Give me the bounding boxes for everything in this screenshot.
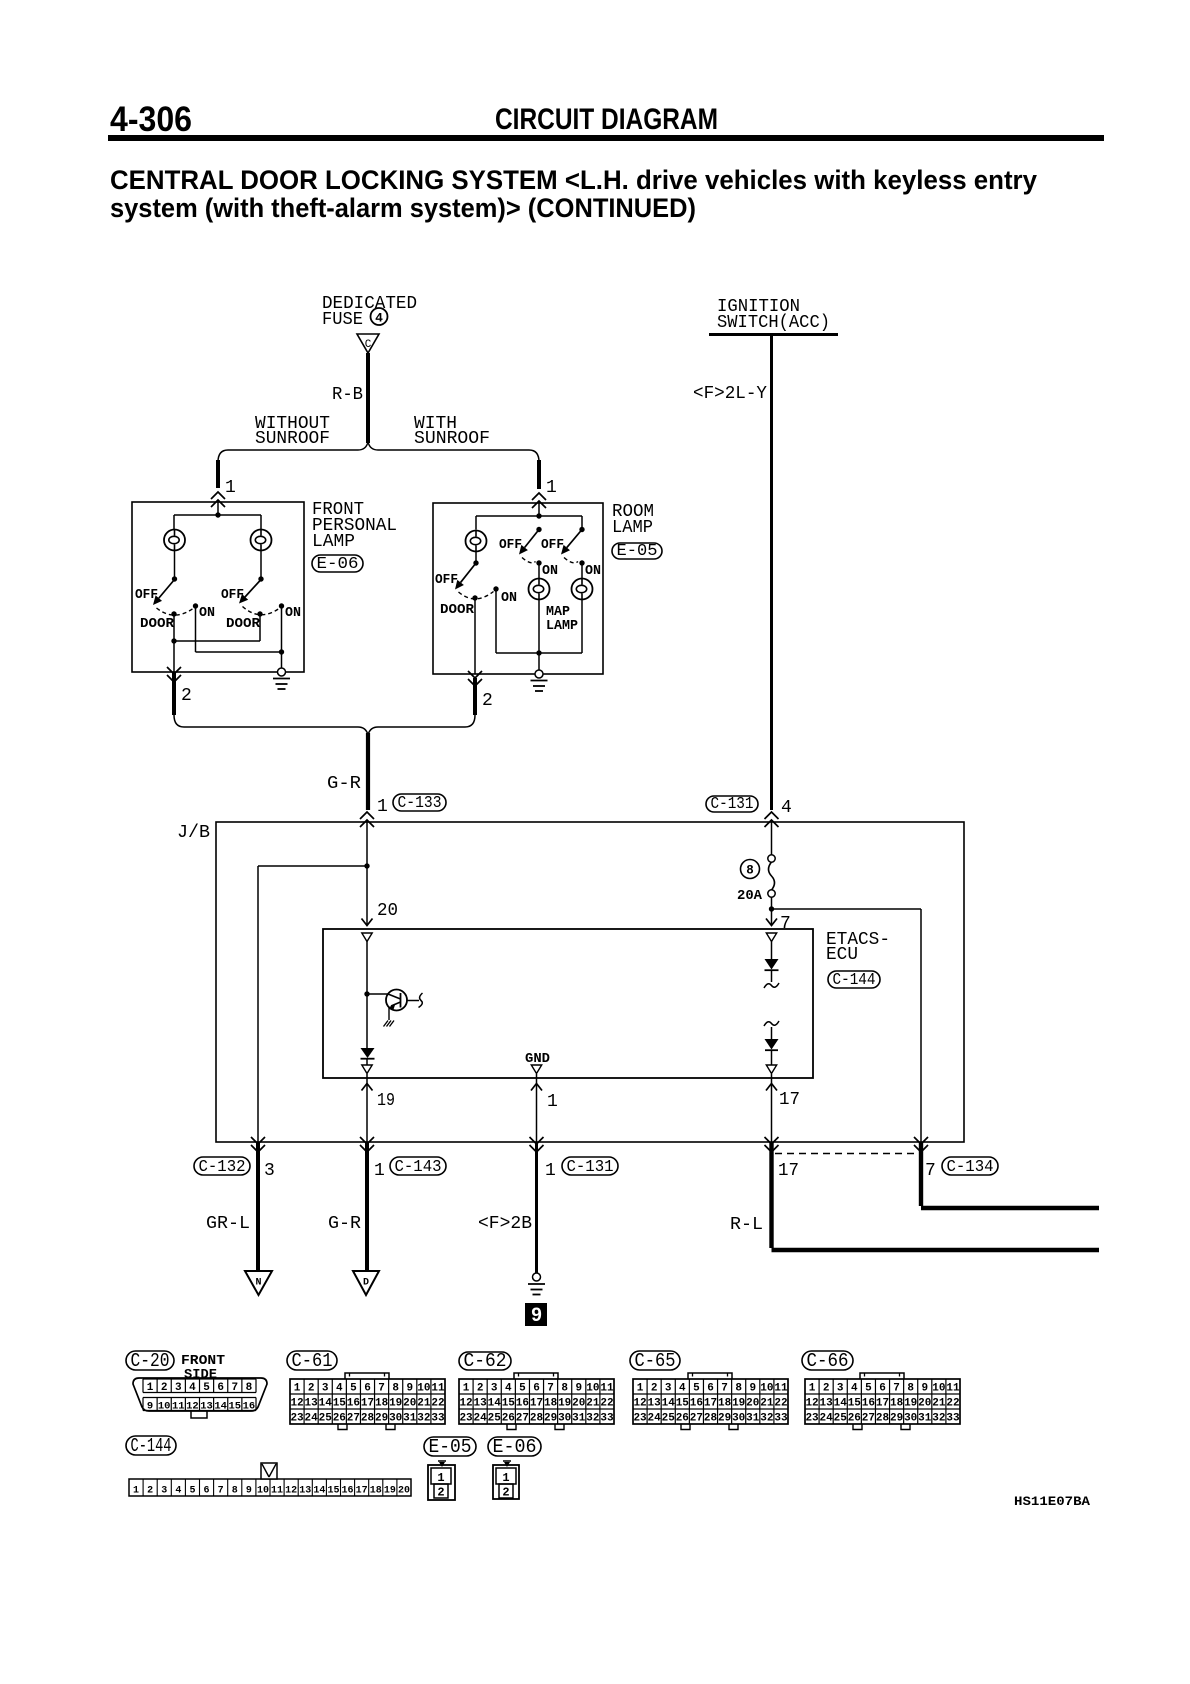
svg-text:20A: 20A [737,889,763,904]
svg-text:7: 7 [780,914,791,934]
svg-text:16: 16 [347,1398,360,1410]
svg-text:R-B: R-B [332,385,363,405]
svg-text:20: 20 [403,1398,416,1410]
svg-text:5: 5 [693,1383,700,1395]
svg-text:15: 15 [327,1486,339,1497]
svg-text:DOOR: DOOR [440,603,475,618]
svg-text:5: 5 [189,1486,195,1497]
svg-text:7: 7 [218,1486,224,1497]
svg-text:1: 1 [809,1383,816,1395]
svg-text:1: 1 [294,1383,301,1395]
svg-text:14: 14 [214,1401,227,1413]
svg-text:31: 31 [572,1413,586,1425]
on bus room [495,589,497,653]
split brace [218,442,539,462]
svg-text:9: 9 [531,1305,542,1326]
svg-text:23: 23 [805,1413,819,1425]
exit C-134 pin 7 [914,1145,928,1152]
terminal D triangle [353,1271,379,1295]
svg-text:27: 27 [347,1413,360,1425]
svg-text:13: 13 [299,1486,311,1497]
svg-text:21: 21 [932,1398,946,1410]
interior wiring [217,502,219,515]
svg-text:2: 2 [502,1486,509,1500]
wire pin 19 [366,1074,368,1142]
svg-text:30: 30 [732,1413,745,1425]
svg-text:8: 8 [907,1383,914,1395]
svg-text:25: 25 [662,1413,676,1425]
svg-text:5: 5 [350,1383,357,1395]
svg-text:1: 1 [546,478,557,498]
svg-text:C-144: C-144 [131,1435,172,1457]
svg-text:4: 4 [851,1383,858,1395]
svg-text:12: 12 [805,1398,818,1410]
svg-text:11: 11 [774,1383,788,1395]
svg-text:13: 13 [648,1398,662,1410]
svg-text:7: 7 [547,1383,554,1395]
svg-text:8: 8 [232,1486,238,1497]
svg-text:27: 27 [516,1413,529,1425]
svg-text:17: 17 [778,1161,799,1181]
svg-text:23: 23 [290,1413,304,1425]
svg-text:R-L: R-L [730,1215,763,1235]
svg-text:N: N [255,1278,261,1289]
svg-text:16: 16 [690,1398,703,1410]
svg-text:GR-L: GR-L [206,1214,250,1234]
svg-text:24: 24 [820,1413,834,1425]
connector C-65 [630,1351,680,1370]
lamp right [581,563,583,579]
svg-text:2: 2 [823,1383,830,1395]
svg-text:13: 13 [305,1398,319,1410]
diode D3 [764,1021,779,1026]
switch 3 arc [459,592,494,599]
wire G-R [366,733,370,810]
svg-text:30: 30 [558,1413,571,1425]
svg-text:9: 9 [921,1383,928,1395]
svg-text:17: 17 [361,1398,374,1410]
svg-text:2: 2 [437,1486,444,1500]
arrow 20 into ETACS [366,866,368,925]
svg-text:2: 2 [181,686,192,706]
switch 5 [581,516,583,530]
svg-text:12: 12 [285,1486,297,1497]
svg-text:2: 2 [651,1383,658,1395]
svg-text:9: 9 [406,1383,413,1395]
connector label E-06 [312,555,363,572]
svg-text:11: 11 [600,1383,614,1395]
svg-text:28: 28 [876,1413,890,1425]
svg-text:C-144: C-144 [833,971,876,990]
lamp room left [466,531,487,552]
room lamp box [433,503,603,674]
svg-text:29: 29 [890,1413,903,1425]
svg-text:2: 2 [308,1383,315,1395]
svg-text:19: 19 [904,1398,917,1410]
svg-text:ON: ON [585,564,601,579]
connector label C-144 [828,971,880,988]
svg-text:23: 23 [633,1413,647,1425]
svg-text:17: 17 [876,1398,889,1410]
wire R-B [366,353,370,443]
exit C-143 pin 1 [360,1145,374,1152]
svg-text:25: 25 [834,1413,848,1425]
connector C-131 top [706,796,758,812]
svg-text:23: 23 [459,1413,473,1425]
svg-text:8: 8 [746,864,754,878]
switch 4 (map) [536,527,541,532]
svg-text:ON: ON [199,606,215,621]
svg-text:19: 19 [732,1398,745,1410]
ground symbol bottom [533,1273,541,1281]
svg-text:21: 21 [586,1398,600,1410]
svg-text:ECU: ECU [826,945,858,965]
dashed link [775,1153,918,1155]
svg-text:14: 14 [662,1398,676,1410]
svg-text:26: 26 [676,1413,689,1425]
svg-text:29: 29 [375,1413,388,1425]
svg-text:9: 9 [749,1383,756,1395]
svg-text:C-62: C-62 [464,1350,507,1372]
svg-text:3: 3 [175,1382,182,1394]
fuse number circle 8 [741,860,760,879]
svg-text:C-134: C-134 [947,1158,994,1177]
svg-text:C-132: C-132 [199,1158,246,1177]
svg-text:10: 10 [257,1486,269,1497]
svg-text:2: 2 [161,1382,168,1394]
svg-text:2: 2 [477,1383,484,1395]
svg-text:11: 11 [946,1383,960,1395]
svg-text:13: 13 [820,1398,834,1410]
svg-text:6: 6 [879,1383,886,1395]
svg-text:FRONT: FRONT [181,1354,225,1369]
svg-text:32: 32 [417,1413,430,1425]
svg-text:9: 9 [246,1486,252,1497]
connector E-05 [424,1437,476,1456]
ground room [538,653,540,670]
svg-text:7: 7 [378,1383,385,1395]
svg-text:2: 2 [482,691,493,711]
svg-text:19: 19 [558,1398,571,1410]
svg-text:E-06: E-06 [317,555,359,574]
svg-text:29: 29 [718,1413,731,1425]
svg-text:4-306: 4-306 [110,100,192,139]
map lamp [538,563,540,579]
connector label E-05 [612,543,662,559]
svg-text:16: 16 [243,1401,256,1413]
merge brace [174,715,475,735]
svg-text:11: 11 [431,1383,445,1395]
svg-text:OFF: OFF [499,538,522,553]
svg-text:28: 28 [530,1413,544,1425]
svg-text:19: 19 [389,1398,402,1410]
svg-text:ON: ON [285,606,301,621]
lamp left [164,530,185,551]
svg-text:C-131: C-131 [711,795,754,814]
svg-text:33: 33 [774,1413,788,1425]
svg-text:D: D [363,1278,369,1289]
switch 2 arc [243,607,280,615]
svg-text:25: 25 [488,1413,502,1425]
transistor Q1 [367,993,390,995]
svg-text:4: 4 [505,1383,512,1395]
svg-text:32: 32 [760,1413,773,1425]
svg-text:25: 25 [319,1413,333,1425]
connector C-66 [802,1351,853,1370]
svg-text:14: 14 [488,1398,502,1410]
left interior wire [366,942,368,1049]
svg-text:33: 33 [431,1413,445,1425]
svg-text:SUNROOF: SUNROOF [255,429,330,449]
svg-text:G-R: G-R [327,774,361,794]
branch to C-134 [772,908,922,910]
svg-text:LAMP: LAMP [612,518,653,538]
svg-text:12: 12 [633,1398,646,1410]
svg-text:OFF: OFF [221,588,244,603]
svg-text:3: 3 [491,1383,498,1395]
branch to C-132 [258,865,367,867]
svg-text:SWITCH(ACC): SWITCH(ACC) [717,313,830,333]
exit wire pin 2 [173,641,175,672]
svg-text:LAMP: LAMP [546,619,578,634]
svg-text:MAP: MAP [546,605,570,620]
svg-text:31: 31 [746,1413,760,1425]
pin 19 triangle [362,1065,372,1074]
svg-text:24: 24 [474,1413,488,1425]
svg-text:24: 24 [305,1413,319,1425]
door bus [173,614,175,641]
svg-text:4: 4 [189,1382,196,1394]
svg-text:DOOR: DOOR [140,617,175,632]
ground ref 9 [525,1303,547,1326]
junction block J/B [216,822,964,1142]
exit wire pin 2 room [474,598,476,674]
svg-text:1: 1 [147,1382,154,1394]
front personal lamp box [132,502,304,672]
svg-text:SUNROOF: SUNROOF [414,429,490,449]
svg-text:E-06: E-06 [493,1436,537,1458]
svg-text:32: 32 [586,1413,599,1425]
C-144 notch [261,1463,277,1479]
svg-text:21: 21 [417,1398,431,1410]
svg-text:7: 7 [721,1383,728,1395]
header rule [108,135,1104,141]
svg-text:2: 2 [147,1486,153,1497]
svg-text:5: 5 [519,1383,526,1395]
wire GND 1 [536,1074,538,1142]
svg-text:20: 20 [398,1486,410,1497]
svg-text:C-61: C-61 [292,1350,333,1372]
connector C-133 [360,812,374,819]
exit C-131 pin 1 [530,1145,544,1152]
arrow 7 into ETACS [771,909,773,925]
svg-text:<F>2L-Y: <F>2L-Y [693,384,767,404]
svg-text:3: 3 [837,1383,844,1395]
ETACS-ECU box [323,929,813,1078]
svg-text:22: 22 [946,1398,959,1410]
svg-text:16: 16 [516,1398,529,1410]
svg-text:26: 26 [502,1413,515,1425]
svg-text:15: 15 [229,1401,242,1413]
svg-text:4: 4 [336,1383,343,1395]
svg-text:10: 10 [417,1383,430,1395]
svg-text:22: 22 [600,1398,613,1410]
svg-text:14: 14 [313,1486,325,1497]
svg-text:1: 1 [377,797,388,817]
svg-text:17: 17 [356,1486,368,1497]
lamp right [251,530,272,551]
svg-text:18: 18 [370,1486,382,1497]
switch 1 blade [159,580,175,599]
svg-text:3: 3 [665,1383,672,1395]
svg-text:C: C [365,339,372,351]
svg-text:1: 1 [437,1471,444,1485]
svg-text:1: 1 [374,1161,385,1181]
svg-text:12: 12 [290,1398,303,1410]
svg-text:17: 17 [704,1398,717,1410]
svg-text:SIDE: SIDE [184,1368,217,1383]
svg-text:27: 27 [690,1413,703,1425]
svg-text:12: 12 [186,1401,199,1413]
svg-text:26: 26 [333,1413,346,1425]
switch 2 blade [245,580,261,597]
wire to room lamp [537,460,541,489]
svg-text:29: 29 [544,1413,557,1425]
svg-text:10: 10 [158,1401,171,1413]
diode D1 [361,1048,375,1058]
connector C-144 [126,1436,176,1455]
switch 1 arc [157,608,194,615]
svg-text:16: 16 [862,1398,875,1410]
svg-text:3: 3 [161,1486,167,1497]
svg-text:OFF: OFF [541,538,564,553]
svg-text:G-R: G-R [328,1214,361,1234]
svg-text:1: 1 [225,478,236,498]
svg-text:6: 6 [364,1383,371,1395]
svg-text:21: 21 [760,1398,774,1410]
pin 20 triangle [362,933,372,942]
connector C-20 [126,1351,174,1370]
svg-text:9: 9 [575,1383,582,1395]
right interior: diode D2 [766,933,776,942]
svg-text:20: 20 [377,901,398,921]
svg-text:1: 1 [547,1092,558,1112]
svg-text:10: 10 [760,1383,773,1395]
svg-text:31: 31 [403,1413,417,1425]
node below fuse [771,897,773,909]
svg-text:5: 5 [865,1383,872,1395]
svg-text:3: 3 [264,1161,275,1181]
svg-text:13: 13 [474,1398,488,1410]
svg-text:15: 15 [848,1398,862,1410]
svg-text:11: 11 [172,1401,185,1413]
svg-text:8: 8 [246,1382,253,1394]
svg-text:6: 6 [204,1486,210,1497]
svg-text:8: 8 [561,1383,568,1395]
svg-text:12: 12 [459,1398,472,1410]
connector C-62 [459,1352,511,1370]
svg-text:HS11E07BA: HS11E07BA [1014,1494,1090,1509]
svg-text:18: 18 [544,1398,558,1410]
svg-text:C-133: C-133 [398,794,442,813]
svg-text:C-131: C-131 [567,1158,614,1177]
svg-text:CENTRAL DOOR LOCKING SYSTEM <L: CENTRAL DOOR LOCKING SYSTEM <L.H. drive … [110,165,1037,195]
svg-text:LAMP: LAMP [312,532,355,552]
svg-text:17: 17 [779,1090,800,1110]
svg-text:C-66: C-66 [807,1350,849,1372]
svg-text:6: 6 [217,1382,224,1394]
svg-text:C-20: C-20 [131,1350,170,1372]
svg-text:20: 20 [746,1398,759,1410]
fuse 20A [771,822,773,855]
wire pin 17 [771,1074,773,1142]
svg-text:<F>2B: <F>2B [478,1214,532,1234]
terminal N triangle [245,1271,272,1295]
svg-text:FUSE: FUSE [322,310,363,330]
svg-text:7: 7 [232,1382,239,1394]
svg-text:19: 19 [377,1091,395,1111]
svg-text:30: 30 [389,1413,402,1425]
svg-text:32: 32 [932,1413,945,1425]
svg-text:28: 28 [704,1413,718,1425]
svg-text:3: 3 [322,1383,329,1395]
svg-text:C-65: C-65 [635,1350,676,1372]
svg-text:9: 9 [147,1401,153,1413]
ground symbol left box [278,668,286,676]
svg-text:DOOR: DOOR [226,617,261,632]
svg-text:33: 33 [946,1413,960,1425]
exit C-132 pin 3 [251,1145,265,1152]
svg-text:30: 30 [904,1413,917,1425]
svg-text:CIRCUIT DIAGRAM: CIRCUIT DIAGRAM [495,103,718,136]
transistor emitter to ground [388,1008,390,1021]
svg-text:1: 1 [545,1161,556,1181]
svg-text:14: 14 [834,1398,848,1410]
svg-text:13: 13 [200,1401,213,1413]
svg-text:E-05: E-05 [429,1436,472,1458]
svg-text:17: 17 [530,1398,543,1410]
svg-text:ON: ON [542,564,558,579]
on bus [195,606,197,652]
svg-text:J/B: J/B [177,823,210,843]
svg-text:4: 4 [679,1383,686,1395]
connector E-06 [488,1437,541,1456]
interior wiring [538,503,540,516]
svg-text:20: 20 [918,1398,931,1410]
svg-text:7: 7 [925,1161,936,1181]
svg-text:7: 7 [893,1383,900,1395]
svg-text:33: 33 [600,1413,614,1425]
svg-text:16: 16 [342,1486,354,1497]
svg-text:5: 5 [203,1382,210,1394]
svg-text:ON: ON [501,591,517,606]
svg-text:18: 18 [375,1398,389,1410]
svg-text:4: 4 [175,1486,181,1497]
svg-text:20: 20 [572,1398,585,1410]
svg-text:6: 6 [533,1383,540,1395]
svg-text:18: 18 [718,1398,732,1410]
svg-text:26: 26 [848,1413,861,1425]
svg-text:15: 15 [502,1398,516,1410]
svg-text:C-143: C-143 [395,1158,442,1177]
svg-text:E-05: E-05 [617,542,658,561]
svg-text:1: 1 [502,1471,509,1485]
svg-text:15: 15 [676,1398,690,1410]
svg-text:10: 10 [932,1383,945,1395]
svg-text:22: 22 [774,1398,787,1410]
wire to front personal lamp [216,460,220,488]
wire F 2L-Y [770,334,773,810]
